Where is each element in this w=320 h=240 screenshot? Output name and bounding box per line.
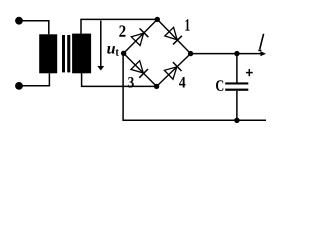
wire: plus output from right vertex bbox=[192, 53, 261, 55]
wire: primary top lead bbox=[19, 21, 49, 35]
diode 3 (L to B) bbox=[131, 61, 148, 78]
bridge edge T-R bbox=[157, 19, 190, 53]
bridge edge L-T bbox=[124, 19, 158, 53]
output current arrowhead bbox=[260, 51, 266, 56]
label diode 4 bbox=[179, 77, 185, 88]
label u_t bbox=[107, 46, 119, 56]
polarity plus sign bbox=[246, 69, 253, 76]
label I (clipped at right edge) bbox=[258, 34, 263, 51]
wire: primary bottom lead bbox=[19, 73, 49, 86]
label C bbox=[216, 80, 223, 91]
label diode 3 bbox=[128, 77, 134, 87]
transformer primary winding bbox=[39, 34, 57, 73]
transformer core bar 2 bbox=[67, 35, 70, 72]
wire: capacitor top lead bbox=[236, 54, 238, 83]
wire: secondary bottom to bridge bottom vertex bbox=[82, 73, 157, 86]
bridge edge L-B bbox=[124, 53, 157, 86]
diode 1 (T to R) bbox=[165, 27, 182, 44]
transformer secondary winding bbox=[72, 34, 91, 74]
wire: minus rail from left vertex down and along bottom bbox=[123, 55, 266, 120]
voltage arrow u_t bbox=[97, 21, 104, 71]
node: bottom-left input terminal bbox=[15, 82, 23, 90]
node: bridge right vertex bbox=[188, 51, 193, 56]
wire: capacitor bottom lead bbox=[236, 91, 238, 121]
node: bridge top vertex bbox=[155, 17, 160, 22]
capacitor C bottom plate bbox=[225, 89, 248, 91]
node: capacitor top junction bbox=[234, 51, 239, 56]
node: bridge bottom vertex bbox=[154, 84, 159, 89]
label diode 1 bbox=[185, 19, 189, 30]
node: top-left input terminal bbox=[15, 17, 23, 25]
wire: secondary top to bridge top vertex bbox=[81, 19, 157, 33]
capacitor C top plate bbox=[225, 82, 248, 84]
bridge edge B-R bbox=[157, 54, 191, 87]
node: capacitor bottom junction bbox=[234, 118, 239, 123]
label diode 2 bbox=[119, 25, 125, 36]
transformer core bar 1 bbox=[62, 35, 65, 72]
node: bridge left vertex bbox=[121, 51, 126, 56]
diode 4 (B to R) bbox=[164, 62, 181, 79]
diode 2 (L to T) bbox=[131, 28, 148, 45]
